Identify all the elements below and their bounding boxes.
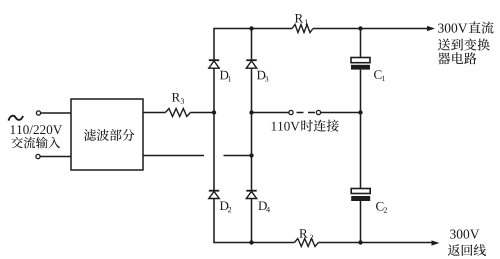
- AC tilde symbol: [9, 116, 24, 121]
- wire box to R3: [143, 112, 165, 114]
- junction node B top: [249, 26, 253, 30]
- label D3: [257, 71, 268, 82]
- wire A top: [213, 28, 215, 60]
- wire R3 to node A: [190, 112, 214, 114]
- filter box: [71, 99, 143, 170]
- junction node B bottom: [249, 240, 253, 244]
- junction node C top: [358, 26, 362, 30]
- wire node B to switch: [252, 112, 289, 114]
- label R2: [299, 229, 313, 240]
- wire A bottom: [213, 199, 215, 244]
- resistor R3: [165, 109, 190, 117]
- label 返回线: [448, 244, 486, 256]
- terminal AC top: [36, 111, 40, 115]
- arrow 300V return: [432, 240, 440, 245]
- label 器电路: [438, 52, 477, 64]
- wire top-left corner: [214, 28, 292, 30]
- dashed link wire: [297, 112, 317, 114]
- arrow 300V DC out: [427, 26, 435, 31]
- label 交流输入: [11, 137, 60, 149]
- diode D4: [246, 191, 256, 199]
- diode D1: [209, 60, 219, 68]
- label D1: [220, 71, 231, 82]
- diode D2: [209, 191, 219, 199]
- label D2: [220, 201, 231, 212]
- label 300V直流: [438, 21, 493, 33]
- wire R2 to arrow: [318, 242, 432, 244]
- wire B bottom: [251, 199, 253, 243]
- label 110V时连接: [272, 120, 339, 132]
- wire C1 to node C mid: [360, 70, 362, 189]
- wire C2 bottom lead: [360, 201, 362, 243]
- wire A mid: [213, 68, 215, 190]
- junction node B low: [249, 153, 253, 157]
- resistor R1: [292, 25, 313, 33]
- label C1: [374, 70, 385, 81]
- terminal AC bottom: [36, 154, 40, 158]
- wire AC input top: [41, 112, 72, 114]
- resistor R2: [294, 239, 318, 247]
- wire switch to node C: [321, 112, 361, 114]
- diode D3: [246, 60, 256, 68]
- junction node B mid: [249, 110, 253, 114]
- switch terminal right: [316, 110, 320, 114]
- label R1: [295, 14, 308, 25]
- wire B top: [251, 29, 253, 61]
- junction node C bottom: [358, 240, 362, 244]
- junction node A mid: [212, 110, 216, 114]
- switch terminal left: [289, 110, 293, 114]
- label R3: [172, 93, 184, 104]
- label 送到变换: [438, 38, 490, 50]
- capacitor C1: [351, 58, 370, 70]
- capacitor C2: [351, 189, 370, 202]
- label D4: [258, 201, 270, 212]
- wire B mid: [251, 68, 253, 190]
- label 300V return: [450, 230, 479, 239]
- label C2: [376, 202, 387, 213]
- wire box lower out: [143, 155, 204, 157]
- junction node C mid: [358, 110, 362, 114]
- label 110/220V: [11, 125, 62, 134]
- wire crossover to node B: [224, 155, 252, 157]
- wire R1 to arrow: [313, 28, 429, 30]
- label 滤波部分: [84, 129, 135, 141]
- wire AC input bottom: [40, 156, 71, 158]
- wire C1 top lead: [360, 29, 362, 58]
- wire bottom-left: [214, 242, 294, 244]
